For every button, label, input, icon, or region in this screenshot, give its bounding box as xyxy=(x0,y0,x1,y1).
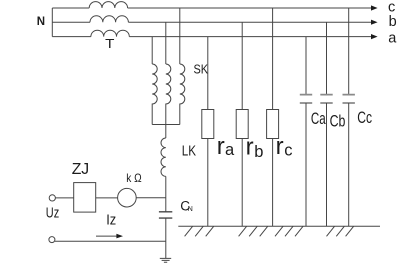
svg-text:Cc: Cc xyxy=(357,109,372,127)
wire drop c to capacitor Cc xyxy=(348,8,350,95)
wire Ca to ground bus xyxy=(305,103,307,226)
inductor SK coil 1 xyxy=(152,64,157,125)
wire rb to ground bus xyxy=(241,139,243,227)
wire drop b to capacitor Cb xyxy=(326,22,328,94)
svg-text:a: a xyxy=(388,30,397,46)
svg-text:r: r xyxy=(276,133,284,160)
svg-text:Cb: Cb xyxy=(330,113,346,131)
arrowhead phase c xyxy=(371,5,378,10)
wire ZJ to meter xyxy=(96,197,118,199)
inductor SK coil 2 xyxy=(166,64,171,125)
wire SK to LK xyxy=(165,125,167,139)
wire Cb to ground bus xyxy=(326,103,328,226)
inductor SK coil 3 xyxy=(180,64,185,125)
svg-text:Iz: Iz xyxy=(106,212,116,229)
meter kOhm circle xyxy=(118,188,137,207)
svg-text:b: b xyxy=(254,143,263,161)
inductor LK xyxy=(161,138,166,176)
terminal Iz bottom xyxy=(49,237,55,243)
capacitor Cb xyxy=(320,95,332,103)
winding T phase c xyxy=(89,2,127,8)
svg-text:r: r xyxy=(217,133,225,160)
arrowhead phase b xyxy=(371,20,378,25)
svg-text:N: N xyxy=(37,16,45,28)
wire drop c to resistor rc xyxy=(272,8,274,110)
wire Cc to ground bus xyxy=(348,103,350,226)
wire drop a to capacitor Ca xyxy=(305,37,307,95)
terminal Uz top xyxy=(49,195,55,201)
wire SK bottom connector xyxy=(152,124,180,126)
wire phase a horizontal xyxy=(52,36,371,38)
winding T phase b xyxy=(90,16,128,22)
arrowhead phase a xyxy=(371,34,378,39)
wire drop a to SK coil 1 xyxy=(151,37,153,64)
wire phase c horizontal xyxy=(52,7,371,9)
capacitor Cc xyxy=(343,95,355,103)
svg-text:k Ω: k Ω xyxy=(126,171,141,185)
svg-text:ZJ: ZJ xyxy=(72,161,90,178)
ground symbol bottom xyxy=(160,258,171,262)
svg-text:a: a xyxy=(225,141,235,159)
resistor rc xyxy=(267,110,279,139)
capacitor Ca xyxy=(300,95,312,103)
resistor rb xyxy=(236,110,248,139)
wire drop a to resistor ra xyxy=(207,37,209,110)
arrowhead Iz xyxy=(116,234,123,239)
capacitor CN xyxy=(159,212,172,218)
svg-text:N: N xyxy=(188,206,193,213)
node N left bus bar xyxy=(51,8,53,37)
svg-text:T: T xyxy=(105,36,114,51)
wire phase b horizontal xyxy=(52,21,371,23)
ground hatching group 1 xyxy=(185,226,214,236)
svg-text:LK: LK xyxy=(182,144,197,160)
svg-text:b: b xyxy=(389,14,397,30)
arrow Iz line xyxy=(96,235,118,237)
wire drop c to SK coil 3 xyxy=(179,8,181,64)
wire drop b to SK coil 2 xyxy=(165,22,167,64)
wire Iz bottom horizontal xyxy=(55,240,166,242)
ground hatching group 3 xyxy=(275,226,303,236)
wire drop b to resistor rb xyxy=(241,22,243,109)
winding T phase a xyxy=(91,30,129,36)
wire rc to ground bus xyxy=(272,139,274,227)
wire meter to node xyxy=(136,197,166,199)
svg-text:SK: SK xyxy=(194,62,209,77)
ground bus line xyxy=(178,225,380,227)
wire CN to ground xyxy=(165,218,167,258)
relay ZJ box xyxy=(74,183,96,213)
wire LK to CN xyxy=(165,176,167,211)
svg-text:Uz: Uz xyxy=(46,204,59,221)
resistor ra xyxy=(202,110,214,139)
svg-text:r: r xyxy=(246,134,254,161)
svg-text:c: c xyxy=(284,142,292,160)
wire ra to ground bus xyxy=(207,139,209,227)
svg-text:Ca: Ca xyxy=(311,110,326,128)
wire terminal to ZJ xyxy=(55,197,73,199)
ground hatching group 2 xyxy=(239,226,268,236)
ground hatching group 4 xyxy=(327,226,354,236)
